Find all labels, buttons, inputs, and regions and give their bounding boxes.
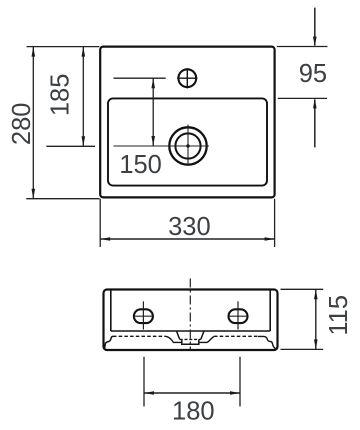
svg-text:280: 280 [8,103,36,146]
svg-text:115: 115 [325,295,353,336]
dimension 150 [119,78,162,179]
underside hidden edge left [113,335,166,337]
underside left foot profile [105,336,114,348]
basin top-view inner bowl [108,98,267,185]
svg-text:330: 330 [168,213,211,241]
underside right solid edge [258,336,276,348]
svg-text:180: 180 [172,397,215,425]
dimension 330 [100,199,274,247]
drain boss trapezoid [177,331,205,339]
front-view left wall line [110,291,112,332]
drain outlet stub [182,339,199,344]
tap hole centre line [114,77,166,79]
svg-text:95: 95 [299,60,327,88]
dimension 115 [281,289,354,349]
left fixing hole [134,301,153,329]
tap hole [177,68,197,88]
front-view centre line [189,279,191,350]
drain [114,125,210,166]
right fixing hole [229,301,248,329]
basin front-view body [104,290,278,351]
dimension 180 [144,357,240,426]
svg-text:185: 185 [46,74,74,117]
dimension 95 [277,8,328,148]
front-view apron line [111,330,270,332]
svg-text:150: 150 [119,151,162,179]
basin top-view outer rim [100,47,274,198]
underside hidden edge right [214,335,258,337]
underside left step to drain [166,336,182,342]
underside right step from drain [199,336,214,342]
dimension 185 [46,47,95,147]
dimension 280 [8,47,100,199]
front-view right wall line [269,291,271,332]
